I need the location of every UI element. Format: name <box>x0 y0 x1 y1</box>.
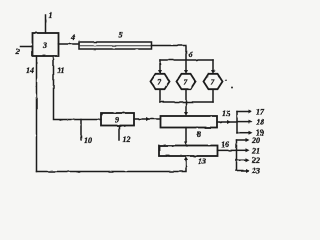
block 13 <box>159 146 218 157</box>
stub 12 <box>118 126 120 141</box>
output 23 arrowhead <box>246 169 250 173</box>
svg-text:23: 23 <box>251 167 260 176</box>
output 18 arrowhead <box>249 120 253 124</box>
output 21 wire <box>237 149 248 151</box>
wire rect 8 to rect 13 <box>185 128 187 144</box>
hexagon 7a <box>151 74 170 89</box>
wire hex bus to rect 8 <box>185 102 187 113</box>
output 22 wire <box>237 159 248 161</box>
block 5 <box>79 42 152 49</box>
drop to hexagon A <box>159 60 161 71</box>
output 18 wire <box>237 121 250 123</box>
box 3 <box>33 33 59 56</box>
arrowhead into hexagon A <box>158 70 162 74</box>
wire 14 (box 3 down to bottom bus) <box>36 56 38 172</box>
output 23 wire <box>237 170 248 172</box>
svg-text:9: 9 <box>115 116 119 125</box>
svg-text:1: 1 <box>49 11 53 20</box>
stub 10 <box>80 120 82 141</box>
hex top bus <box>160 59 213 61</box>
output 19 arrowhead <box>249 131 253 135</box>
svg-text:12: 12 <box>123 135 131 144</box>
arrowhead into rect 13 <box>184 142 188 146</box>
svg-text:7: 7 <box>184 78 188 87</box>
speckle dot 2 <box>225 79 227 81</box>
wire 2 (input to box 3) <box>21 46 33 48</box>
hexagon A output wire <box>159 90 161 103</box>
output 17 wire <box>237 111 250 113</box>
fanout bar lower <box>236 140 238 171</box>
wire 1 (input to box 3) <box>45 15 47 33</box>
hexagon B output wire <box>185 90 187 103</box>
hexagon 7c <box>204 74 223 89</box>
wire 11 (box 3 down to block 9) <box>54 56 102 120</box>
hexagon C output wire <box>212 90 214 103</box>
block 8 <box>161 116 218 128</box>
svg-text:5: 5 <box>119 31 123 40</box>
drop to hexagon B <box>185 60 187 71</box>
output 21 arrowhead <box>246 148 250 152</box>
svg-text:7: 7 <box>211 78 215 87</box>
svg-text:4: 4 <box>70 33 75 42</box>
svg-text:13: 13 <box>198 157 206 166</box>
svg-text:16: 16 <box>221 140 229 149</box>
wire rect 8 to fanout 15 <box>217 121 237 123</box>
wire 4 (box 3 to rect 5) <box>59 43 80 45</box>
hexagon 7b <box>177 74 196 89</box>
output 19 wire <box>237 132 250 134</box>
output 22 arrowhead <box>246 158 250 162</box>
svg-text:18: 18 <box>256 118 264 127</box>
arrowhead on wire 15 <box>227 120 231 124</box>
arrowhead into rect 8 <box>184 112 188 116</box>
wire rect 13 to fanout 16 <box>218 149 237 151</box>
hex bottom bus <box>160 101 213 103</box>
block 9 <box>101 113 134 126</box>
bottom feedback wire (14 to rect 13) <box>37 159 187 172</box>
output 17 arrowhead <box>249 110 253 114</box>
svg-text:3: 3 <box>42 41 47 50</box>
arrowhead into hexagon C <box>211 70 215 74</box>
speckle dot <box>231 87 233 89</box>
output 20 wire <box>237 139 248 141</box>
svg-text:10: 10 <box>84 136 92 145</box>
arrowhead block 9 to rect 8 <box>146 117 150 121</box>
svg-text:21: 21 <box>251 146 260 155</box>
output 20 arrowhead <box>246 138 250 142</box>
svg-text:11: 11 <box>57 66 65 75</box>
svg-text:2: 2 <box>15 47 20 56</box>
svg-text:22: 22 <box>251 156 260 165</box>
wire 6 (rect 5 to hex bus) <box>152 46 187 60</box>
fanout bar upper <box>236 112 238 134</box>
svg-text:15: 15 <box>222 109 230 118</box>
svg-text:7: 7 <box>158 78 162 87</box>
wire block 9 to rect 8 <box>134 118 161 120</box>
svg-text:20: 20 <box>251 136 260 145</box>
arrowhead into rect 13 bottom <box>184 156 188 160</box>
svg-text:8: 8 <box>197 130 201 139</box>
arrowhead into hexagon B <box>184 70 188 74</box>
drop to hexagon C <box>212 60 214 71</box>
svg-text:14: 14 <box>26 66 34 75</box>
svg-text:6: 6 <box>189 50 193 59</box>
svg-text:17: 17 <box>256 108 265 117</box>
block 5 inner line <box>80 45 151 47</box>
